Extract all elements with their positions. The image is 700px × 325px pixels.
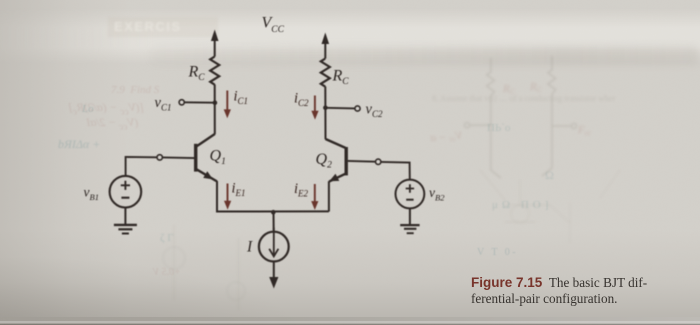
vB1 plus sign xyxy=(121,181,130,190)
current arrow iC1 xyxy=(224,91,231,119)
Vcc arrow right xyxy=(322,33,330,45)
current source I internal arrow xyxy=(269,228,278,257)
wire: vC1 stub xyxy=(185,101,215,103)
resistor RC (right) xyxy=(321,59,330,87)
ghost bleed-through from reverse side xyxy=(108,17,218,37)
node: left collector junction xyxy=(213,100,218,105)
label iC2 xyxy=(294,91,309,109)
wire: vB2 to ground xyxy=(409,208,411,224)
label VCC xyxy=(262,15,285,36)
vB2 minus sign xyxy=(406,199,413,201)
terminal circle vC1 xyxy=(179,100,184,105)
wire: Q2 emitter vertical xyxy=(328,181,330,211)
label vC2 xyxy=(366,102,383,120)
node: emitter rail junction xyxy=(271,210,276,215)
transistor Q1 emitter diagonal with arrow xyxy=(196,169,217,181)
transistor Q1 base bar xyxy=(194,144,197,172)
wire: Q2 base lead xyxy=(348,161,410,180)
wire: below current source xyxy=(273,262,275,279)
current arrow iE2 xyxy=(311,184,318,210)
vB2 plus sign xyxy=(406,184,414,192)
wire: common emitter rail xyxy=(216,210,329,212)
wire: right collector branch vertical xyxy=(324,44,326,140)
voltage source vB2 circle xyxy=(396,180,425,209)
maroon current arrows xyxy=(224,91,319,210)
wire: vB1 to ground xyxy=(124,208,126,225)
label vB1 xyxy=(84,185,99,203)
current arrow iE1 xyxy=(224,184,231,210)
figure caption xyxy=(471,275,671,307)
terminal circle vC2 xyxy=(355,106,360,111)
label I xyxy=(246,239,253,256)
label Q1 xyxy=(210,148,226,168)
label vB2 xyxy=(429,185,445,203)
label Q2 xyxy=(316,151,333,171)
output arrow below current source xyxy=(269,277,278,289)
ground under vB2 xyxy=(400,225,419,233)
transistor Q2 collector diagonal xyxy=(326,139,346,148)
lighting: left dark edge xyxy=(0,0,130,325)
label RC left xyxy=(188,64,206,84)
resistor RC (left) xyxy=(210,57,219,85)
terminal circle on Q1 base wire xyxy=(157,155,162,160)
bottom page edge strip xyxy=(0,317,700,325)
voltage source vB1 circle xyxy=(110,176,142,208)
node: right collector junction xyxy=(323,106,328,111)
ground under vB1 xyxy=(114,225,137,234)
Vcc arrow left xyxy=(211,30,219,42)
label RC right xyxy=(332,68,350,88)
terminal circle on Q2 base wire xyxy=(376,159,381,164)
smudged dark edge under top band (ghost banner) xyxy=(150,46,700,64)
lighting: bottom-left deeper xyxy=(0,240,360,325)
wire: Q1 emitter vertical xyxy=(216,181,218,212)
label iE2 xyxy=(294,181,309,199)
vB1 minus sign xyxy=(121,197,129,199)
label iC1 xyxy=(234,89,249,107)
lighting: bottom darkening xyxy=(0,230,700,325)
wire: left collector branch vertical xyxy=(214,41,216,135)
transistor Q2 emitter diagonal with arrow xyxy=(329,174,346,182)
wire: vC2 stub xyxy=(325,107,354,110)
wire: Q1 base lead xyxy=(126,157,195,176)
transistor Q1 collector diagonal xyxy=(196,134,215,147)
wire: junction to current source xyxy=(273,212,275,233)
current arrow iC2 xyxy=(311,96,318,120)
lighting: top light band xyxy=(0,8,700,64)
label vC1 xyxy=(155,95,172,113)
transistor Q2 base bar xyxy=(345,147,348,175)
current source I circle xyxy=(259,232,289,262)
label iE1 xyxy=(232,181,246,199)
